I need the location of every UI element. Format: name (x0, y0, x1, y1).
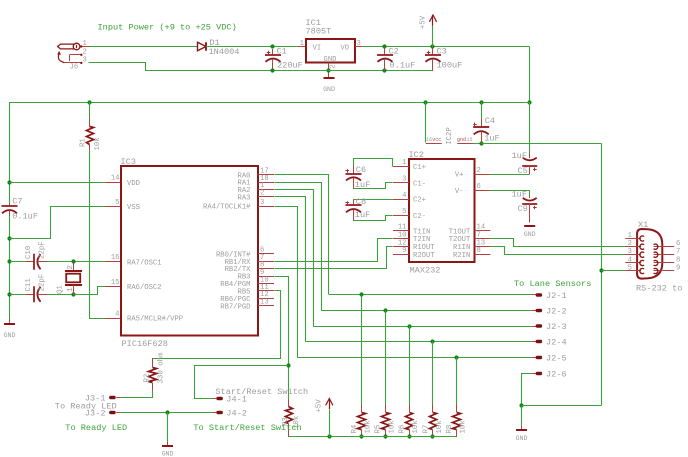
junction C1 bottom (270, 68, 274, 72)
svg-text:7: 7 (676, 248, 680, 256)
svg-text:VDD: VDD (127, 180, 140, 188)
svg-text:C10: C10 (25, 246, 33, 259)
svg-text:16: 16 (426, 137, 432, 143)
junction R7 top (430, 339, 434, 343)
svg-text:22pF: 22pF (38, 241, 46, 259)
ground symbol bottom right (516, 406, 528, 442)
svg-text:1uF: 1uF (512, 189, 527, 199)
svg-text:RA6/OSC2: RA6/OSC2 (127, 284, 162, 292)
label To Ready LED grey (55, 401, 117, 411)
junction at C1 top (270, 44, 274, 48)
wire RA4 to J2-5 row (275, 207, 298, 358)
C2 labels (389, 47, 416, 71)
svg-text:J4-2: J4-2 (226, 408, 247, 418)
svg-text:vcc: vcc (432, 137, 441, 143)
pin J2-3 (531, 322, 566, 332)
R4 labels (351, 420, 373, 434)
svg-text:7: 7 (477, 231, 481, 239)
svg-text:T1OUT: T1OUT (449, 228, 471, 236)
svg-text:GND: GND (324, 56, 337, 64)
svg-text:0.1uF: 0.1uF (12, 212, 38, 222)
C4 labels (484, 116, 499, 143)
svg-text:IC2P: IC2P (446, 127, 454, 145)
svg-text:10k: 10k (436, 420, 444, 434)
wire J2-6 to ground (522, 374, 532, 406)
wire RA0 to J2-1 row (275, 175, 329, 295)
X1 right pin numbers (676, 240, 680, 272)
+5V supply symbol bottom (316, 399, 333, 438)
wire +5V to C5 (529, 102, 531, 152)
wire J2-2 row (321, 310, 531, 312)
R3 labels (282, 415, 301, 429)
junction crystal bottom (71, 292, 75, 296)
pin J2-6 (531, 369, 566, 379)
svg-text:1: 1 (83, 40, 87, 48)
svg-text:4: 4 (628, 257, 632, 265)
svg-text:11: 11 (398, 224, 407, 232)
wire D1 cathode to IC1 VI (206, 46, 306, 48)
capacitor C11 22pF (10, 286, 74, 302)
net label To Start/Reset Switch (193, 423, 301, 433)
svg-text:C3: C3 (437, 47, 447, 57)
microcontroller IC3 box (121, 166, 258, 336)
svg-text:10k: 10k (388, 420, 396, 434)
svg-text:GND: GND (516, 435, 528, 442)
svg-text:10: 10 (398, 231, 407, 239)
wire J2-5 row (297, 357, 531, 359)
capacitor C6 1uF (345, 166, 361, 190)
X1 value label RS-232 (636, 284, 682, 294)
resistor R5 10k (382, 311, 390, 438)
svg-text:1N4004: 1N4004 (209, 47, 240, 57)
junction C2 top (382, 44, 386, 48)
IC1 labels (306, 18, 350, 64)
svg-text:22pF: 22pF (38, 274, 46, 292)
wire J3-2 to J4-2 (121, 412, 212, 414)
IC2 right pin names (449, 172, 471, 260)
resistor R3 10k (286, 366, 293, 437)
svg-text:RA7/OSC1: RA7/OSC1 (127, 259, 162, 267)
wire +5V down right side (529, 47, 531, 103)
IC3 left pin numbers (111, 174, 120, 318)
svg-text:C2: C2 (389, 47, 399, 57)
IC3 right pin numbers (260, 168, 269, 307)
resistor R6 10k (406, 326, 413, 437)
svg-text:Input Power (+9 to +25 VDC): Input Power (+9 to +25 VDC) (98, 23, 237, 33)
J6 name label (70, 64, 79, 72)
IC3 right pin stubs (258, 175, 274, 306)
svg-text:10k: 10k (94, 137, 102, 151)
junction R7 bottom (430, 434, 434, 438)
IC2P power symbol (426, 102, 474, 145)
junction R5 bottom (383, 434, 387, 438)
svg-text:VO: VO (340, 45, 349, 53)
wire RB3 to switch node (275, 277, 289, 366)
junction X1 pin 5 ground (599, 268, 603, 272)
svg-text:C1+: C1+ (413, 164, 426, 172)
wire ground node to X1 drop (522, 405, 602, 407)
junction R1 top (87, 100, 91, 104)
IC1 pin 3 number (357, 40, 361, 48)
pin J4-2 (212, 408, 247, 418)
junction IC1 pin2 at ground rail (326, 68, 330, 72)
R6 labels (399, 420, 421, 434)
svg-text:220uF: 220uF (277, 61, 303, 71)
svg-text:J2-1: J2-1 (546, 291, 567, 301)
svg-text:2: 2 (628, 240, 632, 248)
svg-text:J6: J6 (70, 64, 79, 72)
Q1 labels (56, 265, 75, 294)
svg-text:15: 15 (467, 137, 473, 143)
svg-text:R7: R7 (422, 425, 430, 434)
wire switch node to J4-1 (195, 366, 289, 399)
svg-text:VSS: VSS (127, 204, 140, 212)
svg-text:RB7/PGD: RB7/PGD (220, 303, 250, 311)
svg-text:C7: C7 (12, 196, 22, 206)
C9 labels (512, 189, 528, 214)
wire +5V rail horizontal (10, 102, 530, 104)
junction C4 drop (479, 100, 483, 104)
svg-text:C9: C9 (518, 204, 528, 214)
svg-text:16: 16 (111, 254, 120, 262)
C3 labels (437, 47, 463, 71)
svg-text:C11: C11 (25, 278, 33, 292)
svg-text:GND: GND (323, 86, 335, 93)
J6 pin 1 (80, 40, 90, 48)
svg-text:R1: R1 (80, 138, 88, 147)
svg-text:J2-5: J2-5 (546, 353, 567, 363)
svg-text:GND: GND (4, 332, 16, 339)
junction C4 bottom (479, 141, 483, 145)
svg-text:V+: V+ (455, 172, 464, 180)
pin J2-5 (531, 353, 566, 363)
wire VSS to IC3 pin 5 (10, 207, 122, 239)
wire C1+ loop to C6 top (354, 159, 393, 167)
svg-text:C1: C1 (277, 47, 287, 57)
wire ground drop to X1 pin 5 and J2-6 (601, 144, 603, 406)
svg-text:PIC16F628: PIC16F628 (122, 339, 168, 349)
J6 pin 2 switch contact (70, 48, 87, 61)
wire RA3 to J2-4 row (275, 197, 306, 342)
ground symbol below J3 wire (162, 413, 174, 457)
junction R4 top (359, 292, 363, 296)
wire V- to C9 (490, 190, 529, 195)
svg-text:R2: R2 (143, 374, 151, 383)
X1 left pin sockets (640, 236, 644, 274)
svg-text:1uF: 1uF (512, 151, 527, 161)
capacitor C5 1uF (522, 152, 537, 174)
svg-text:T2IN: T2IN (413, 236, 430, 244)
svg-text:C2+: C2+ (413, 197, 426, 205)
R8 labels (446, 420, 468, 434)
svg-text:5: 5 (628, 265, 632, 273)
wire J2-4 row (305, 341, 531, 343)
wire J2-1 row (329, 294, 531, 296)
IC3 value label PIC16F628 (122, 339, 168, 349)
svg-text:C6: C6 (356, 165, 366, 175)
svg-text:5: 5 (402, 208, 406, 216)
svg-text:14: 14 (111, 174, 120, 182)
svg-text:+5V: +5V (316, 399, 324, 413)
svg-text:J2-3: J2-3 (546, 322, 567, 332)
crystal Q1 (65, 262, 82, 295)
svg-text:T1IN: T1IN (413, 228, 430, 236)
IC2 left pin numbers (398, 159, 407, 255)
pin J2-4 (531, 337, 566, 347)
capacitor C1 220uF (265, 49, 281, 71)
svg-text:5: 5 (115, 199, 119, 207)
svg-text:1: 1 (300, 40, 304, 48)
pin J2-2 (531, 306, 566, 316)
svg-text:J2-6: J2-6 (546, 369, 567, 379)
wire RB1/RX to MAX232 T2IN (275, 239, 393, 262)
diode D1 (198, 42, 207, 50)
svg-text:10k: 10k (364, 420, 372, 434)
svg-text:J2-2: J2-2 (546, 306, 567, 316)
svg-text:R4: R4 (351, 424, 359, 433)
svg-text:GND: GND (162, 451, 174, 457)
svg-text:1uF: 1uF (484, 133, 499, 143)
X1 right pin stubs (654, 247, 675, 271)
IC1 pin 2 stub and number (329, 63, 338, 72)
svg-text:VI: VI (313, 45, 322, 53)
IC2 right pin stubs (474, 175, 490, 255)
svg-text:6: 6 (477, 183, 481, 191)
wire VDD to IC3 pin 14 (10, 182, 122, 184)
wire IC1 VO to +5V corner (355, 46, 530, 48)
junction IC2P VCC drop (423, 100, 427, 104)
wire RB2/TX to MAX232 R1OUT (275, 247, 393, 269)
svg-text:2: 2 (67, 265, 75, 269)
svg-text:To Lane Sensors: To Lane Sensors (514, 279, 591, 289)
svg-text:6: 6 (676, 240, 680, 248)
junction VSS wire (7, 236, 11, 240)
wire J2-3 row (314, 326, 532, 328)
svg-text:R8: R8 (446, 425, 454, 434)
IC2 name label (409, 150, 424, 160)
D1 labels (209, 38, 240, 57)
IC2 left pin stubs (393, 167, 409, 255)
svg-text:RA4/TOCLK1#: RA4/TOCLK1# (203, 204, 251, 212)
junction J4-1 tap (286, 363, 290, 367)
svg-text:+5V: +5V (419, 15, 427, 29)
svg-text:4: 4 (115, 310, 119, 318)
C11 labels (25, 274, 47, 292)
wire R1 to RA5/MCLR pin 4 (90, 151, 122, 319)
ground symbol at C9 (524, 226, 536, 238)
junction C11 left (7, 292, 11, 296)
svg-text:To Start/Reset Switch: To Start/Reset Switch (193, 423, 301, 433)
svg-text:1: 1 (402, 159, 406, 167)
svg-text:3: 3 (628, 248, 632, 256)
ground symbol bottom left (4, 318, 16, 339)
X1 left pin numbers (628, 232, 632, 273)
svg-text:1: 1 (628, 232, 632, 240)
R7 labels (422, 420, 444, 434)
wire RA1 to J2-2 row (275, 183, 322, 311)
svg-text:1: 1 (67, 287, 75, 291)
net label To Ready LED (65, 423, 127, 433)
junction ground tap at J3-2 wire (165, 410, 169, 414)
svg-text:13: 13 (260, 299, 269, 307)
X1 right pin sockets (654, 244, 658, 273)
J6 pin 3 and spring lever (58, 52, 87, 64)
svg-text:T2OUT: T2OUT (449, 236, 471, 244)
svg-text:X1: X1 (638, 220, 648, 230)
capacitor C4 1uF (473, 102, 489, 144)
IC2 value label MAX232 (410, 266, 441, 276)
wire R2 to J3-1 (121, 391, 153, 398)
svg-text:2: 2 (330, 64, 338, 68)
wire input ground rail to C3 (298, 70, 433, 72)
R5 labels (375, 420, 397, 434)
junction VDD tap (7, 180, 11, 184)
svg-text:V-: V- (455, 188, 464, 196)
wire RB5 to R2 (153, 291, 281, 359)
svg-text:8: 8 (477, 247, 481, 255)
svg-text:MAX232: MAX232 (410, 266, 441, 276)
wire +12V input: jack pin1 to D1 anode (90, 46, 198, 48)
wire C2+ to C8 top (354, 199, 393, 201)
svg-text:1uF: 1uF (355, 210, 370, 220)
C5 labels (512, 151, 528, 176)
+5V supply symbol top (419, 15, 436, 47)
junction +5V symbol bottom (327, 434, 331, 438)
svg-text:2: 2 (83, 48, 87, 56)
svg-text:RS-232 to: RS-232 to (636, 284, 682, 294)
svg-text:0.1uF: 0.1uF (390, 61, 416, 71)
ground symbol at IC1 (323, 71, 335, 93)
svg-text:RA5/MCLR#/VPP: RA5/MCLR#/VPP (127, 316, 183, 324)
svg-text:100uF: 100uF (437, 61, 463, 71)
junction C3 top (430, 44, 434, 48)
wire OSC1 to IC3 pin 16 (73, 261, 121, 263)
junction R6 top (407, 324, 411, 328)
svg-text:10k: 10k (460, 420, 468, 434)
junction C10 left (7, 259, 11, 263)
C7 labels (12, 196, 38, 221)
wire T2OUT to X1 pin 2 (491, 239, 626, 247)
svg-text:RA3: RA3 (238, 194, 251, 202)
pin J4-1 (212, 394, 247, 404)
svg-text:R2OUT: R2OUT (413, 252, 435, 260)
svg-text:Q1: Q1 (56, 285, 64, 294)
IC1 pin 1 number (300, 40, 304, 48)
C8 labels (355, 197, 370, 220)
junction R5 top (383, 308, 387, 312)
svg-text:C8: C8 (356, 197, 366, 207)
voltage regulator IC1 box (306, 39, 355, 63)
wire C5 bottom to V+ (490, 174, 529, 176)
capacitor C3 100uF (425, 47, 441, 72)
X1 left pin stubs (625, 239, 641, 271)
svg-text:GND: GND (524, 231, 536, 238)
connector X1 DB9 body (637, 229, 662, 279)
svg-text:7805T: 7805T (306, 27, 332, 37)
junction C2 bottom (382, 68, 386, 72)
resistor R7 10k (430, 342, 437, 438)
svg-text:C2-: C2- (413, 213, 426, 221)
power jack J6 barrel (58, 43, 80, 50)
svg-text:gnd: gnd (457, 137, 466, 143)
svg-text:9: 9 (676, 265, 680, 273)
capacitor C2 0.1uF (377, 47, 393, 72)
junction R8 top (454, 355, 458, 359)
svg-text:R6: R6 (399, 425, 407, 434)
IC2 left pin names (413, 164, 435, 260)
wire C6 bottom to C1- (354, 183, 393, 189)
junction ground node bottom right (519, 403, 523, 407)
label Start/Reset Switch (215, 387, 308, 397)
IC2 right pin numbers (477, 167, 486, 255)
wire IC2P GND to C4 junction (474, 143, 482, 145)
wire junction to X1 pin 5 (602, 270, 626, 272)
IC3 name label (121, 157, 136, 167)
svg-text:J3-2: J3-2 (85, 408, 106, 418)
svg-text:C1-: C1- (413, 180, 426, 188)
svg-text:8: 8 (676, 257, 680, 265)
svg-text:330 ohm: 330 ohm (158, 352, 166, 384)
C10 labels (25, 241, 47, 259)
wire C8 bottom to C2- (354, 216, 393, 221)
IC3 right pin names (203, 173, 251, 312)
svg-text:3: 3 (402, 176, 406, 184)
junction +5V rail right corner (527, 100, 531, 104)
wire +5V pullup rail (289, 436, 457, 438)
wire jack pin3 to input ground rail (89, 63, 299, 71)
resistor R1 10k (87, 102, 94, 150)
capacitor C9 1uF (522, 196, 537, 223)
resistor R8 10k (453, 358, 461, 438)
junction R4 bottom (359, 434, 363, 438)
capacitor C7 0.1uF (2, 203, 18, 216)
svg-text:3: 3 (83, 56, 87, 64)
pin J2-1 (531, 291, 566, 301)
resistor R2 330 ohm (149, 358, 157, 391)
capacitor C8 1uF (345, 199, 361, 221)
svg-text:2: 2 (477, 167, 481, 175)
wire C7 bottom ground column (9, 216, 11, 318)
RS-232 driver IC2 box (409, 159, 475, 262)
pin J3-2 (85, 408, 121, 418)
junction crystal top (71, 259, 75, 263)
capacitor C10 22pF (10, 254, 74, 270)
wire R1IN to X1 pin 3 (491, 247, 626, 255)
svg-text:10k: 10k (412, 420, 420, 434)
X1 name label (638, 220, 648, 230)
C6 labels (355, 165, 370, 190)
wire ground net to X1 drop (481, 143, 601, 145)
wire RA2 to J2-3 row (275, 190, 314, 327)
svg-text:R5: R5 (375, 425, 383, 434)
svg-text:4: 4 (402, 192, 406, 200)
svg-text:C4: C4 (485, 116, 495, 126)
svg-text:J2-4: J2-4 (546, 337, 567, 347)
svg-text:15: 15 (111, 279, 120, 287)
wire +5V rail left drop (9, 102, 11, 203)
C1 labels (277, 47, 303, 71)
wire OSC2 to IC3 pin 15 (74, 287, 122, 295)
pin J3-1 (85, 393, 121, 403)
svg-text:2: 2 (260, 190, 264, 198)
svg-text:3: 3 (260, 199, 264, 207)
junction R6 bottom (407, 434, 411, 438)
resistor R4 10k (358, 295, 366, 437)
R2 labels (143, 352, 165, 384)
net label Input Power (98, 23, 237, 33)
svg-text:IC3: IC3 (121, 157, 136, 167)
svg-text:IC2: IC2 (409, 150, 424, 160)
